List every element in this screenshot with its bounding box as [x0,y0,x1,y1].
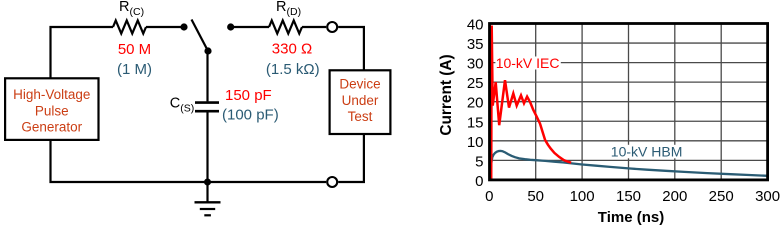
svg-text:Under: Under [342,93,379,108]
svg-text:300: 300 [755,188,780,205]
svg-text:20: 20 [467,95,484,112]
svg-text:150 pF: 150 pF [225,87,272,104]
svg-text:Test: Test [348,109,373,124]
svg-text:0: 0 [485,188,493,205]
svg-text:50: 50 [527,188,544,205]
svg-text:Generator: Generator [21,120,82,135]
svg-text:40: 40 [467,17,484,34]
svg-text:15: 15 [467,114,484,131]
svg-text:10-kV HBM: 10-kV HBM [611,144,683,160]
svg-text:150: 150 [616,188,641,205]
svg-text:100: 100 [570,188,595,205]
svg-text:(1 M): (1 M) [117,61,152,78]
svg-text:High-Voltage: High-Voltage [13,87,90,102]
svg-text:35: 35 [467,36,484,53]
svg-text:Time (ns): Time (ns) [598,209,664,226]
svg-text:25: 25 [467,75,484,92]
svg-text:Pulse: Pulse [35,103,69,118]
svg-text:10: 10 [467,134,484,151]
svg-text:R(D): R(D) [276,0,301,18]
svg-text:30: 30 [467,56,484,73]
svg-text:R(C): R(C) [119,0,144,18]
svg-text:(1.5 kΩ): (1.5 kΩ) [266,61,320,78]
svg-text:330 Ω: 330 Ω [272,41,312,58]
svg-text:10-kV IEC: 10-kV IEC [496,55,560,71]
svg-text:50 M: 50 M [118,41,151,58]
svg-text:Device: Device [339,77,380,92]
svg-text:200: 200 [662,188,687,205]
svg-text:Current (A): Current (A) [438,54,455,135]
svg-text:5: 5 [475,153,483,170]
svg-text:250: 250 [709,188,734,205]
svg-text:(100 pF): (100 pF) [222,107,279,124]
svg-text:C(S): C(S) [170,95,194,114]
svg-text:0: 0 [475,173,483,190]
